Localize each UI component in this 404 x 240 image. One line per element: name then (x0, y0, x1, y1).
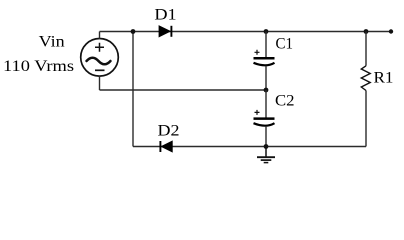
wire source bottom stub (99, 76, 101, 90)
wire middle horizontal (100, 89, 267, 91)
svg-text:C1: C1 (276, 36, 294, 53)
svg-text:D2: D2 (158, 123, 180, 140)
wire bottom rail (133, 146, 366, 148)
terminal dot output (389, 29, 393, 33)
ground symbol (257, 147, 275, 163)
svg-text:D1: D1 (154, 7, 176, 24)
wire R1 bottom lead (365, 91, 367, 147)
source minus polarity (95, 69, 105, 71)
source plus polarity (95, 43, 104, 52)
svg-text:Vin: Vin (39, 34, 65, 51)
C2 plus mark (255, 110, 260, 115)
svg-text:110 Vrms: 110 Vrms (3, 58, 74, 75)
voltage source V1 circle (81, 39, 119, 77)
source sine wave (87, 58, 111, 65)
wire source top stub (99, 32, 101, 39)
capacitor C2 (254, 119, 275, 126)
diode D1 (159, 26, 171, 37)
svg-text:C2: C2 (275, 93, 295, 110)
C1 plus mark (255, 50, 260, 55)
junction dot ground node (264, 144, 269, 149)
junction dot C1 top (264, 29, 269, 34)
junction dot R1 top (364, 29, 369, 34)
diode D2 (160, 141, 172, 152)
capacitor C1 (254, 58, 275, 65)
wire C1 top lead (265, 32, 267, 58)
wire top rail (100, 31, 392, 33)
wire C2 bottom lead (265, 126, 267, 146)
junction dot left top (131, 29, 136, 34)
junction dot middle node (264, 88, 269, 93)
wire C2 top lead (265, 90, 267, 118)
svg-text:R1: R1 (374, 69, 394, 86)
wire C1 bottom lead (265, 66, 267, 90)
resistor R1 zigzag (361, 66, 370, 91)
wire left vertical (top rail to bottom rail) (132, 32, 134, 147)
wire R1 top lead (365, 32, 367, 66)
